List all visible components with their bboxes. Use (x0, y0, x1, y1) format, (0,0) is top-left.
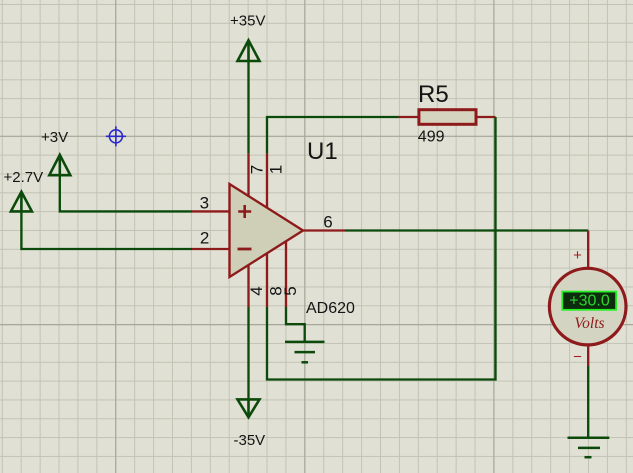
wire voltmeter to ground (587, 366, 589, 438)
svg-text:Volts: Volts (574, 315, 604, 332)
ground (285, 342, 325, 362)
svg-text:1: 1 (267, 165, 286, 174)
power +2.7V (11, 192, 32, 212)
op-amp U1 (230, 184, 304, 277)
svg-text:−: − (573, 349, 582, 366)
wire pin5 to ground (286, 307, 305, 341)
resistor R5 (399, 110, 496, 125)
wire +35V to pin7 (247, 61, 249, 153)
pin 7 (247, 153, 249, 197)
svg-text:R5: R5 (418, 81, 449, 108)
pin 2 (192, 248, 230, 250)
voltmeter (549, 231, 626, 367)
pin 5 (285, 242, 287, 307)
svg-text:+30.0: +30.0 (569, 293, 610, 310)
svg-text:+2.7V: +2.7V (4, 169, 44, 186)
origin marker (106, 126, 126, 146)
pin 6 (303, 229, 345, 231)
ground (568, 438, 610, 458)
pin 8 (266, 254, 268, 307)
svg-text:3: 3 (200, 194, 209, 213)
svg-text:5: 5 (281, 286, 300, 295)
power -35V (238, 399, 260, 417)
svg-text:-35V: -35V (234, 432, 266, 449)
svg-text:+: + (573, 247, 582, 264)
wire pin4 to -35V (247, 307, 249, 399)
svg-text:U1: U1 (307, 138, 338, 165)
wire R5 down and to pin8 (267, 117, 496, 380)
svg-text:4: 4 (247, 286, 266, 295)
svg-text:AD620: AD620 (306, 300, 355, 317)
pin 4 (247, 266, 249, 308)
svg-text:2: 2 (200, 229, 209, 248)
pin 1 (266, 153, 268, 208)
svg-text:7: 7 (248, 165, 267, 174)
wire +2.7V to pin2 (21, 211, 192, 249)
wire pin1 to R5 (267, 117, 399, 153)
svg-text:6: 6 (323, 213, 332, 232)
svg-text:499: 499 (418, 129, 445, 146)
svg-text:+3V: +3V (41, 129, 68, 146)
pin 3 (192, 210, 230, 212)
power +35V (238, 40, 260, 61)
power +3V (49, 155, 70, 175)
wire pin6 output (345, 229, 588, 231)
wire +3V to pin3 (60, 175, 192, 211)
svg-text:+35V: +35V (230, 13, 265, 30)
